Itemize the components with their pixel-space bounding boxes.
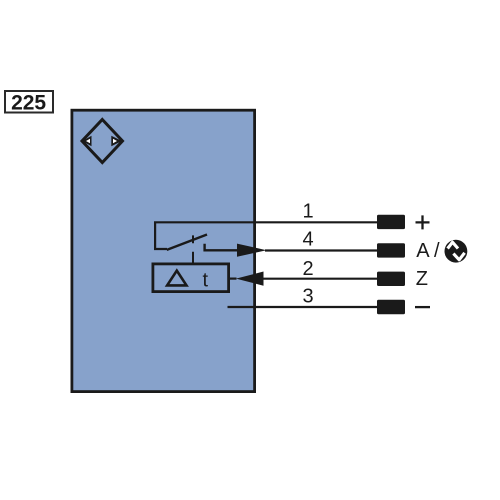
svg-text:A /: A /	[416, 240, 440, 262]
svg-text:Z: Z	[416, 268, 428, 290]
svg-text:3: 3	[302, 285, 313, 307]
svg-text:2: 2	[302, 258, 313, 280]
svg-text:1: 1	[302, 201, 313, 223]
svg-text:t: t	[203, 270, 209, 292]
svg-text:4: 4	[302, 229, 313, 251]
svg-text:225: 225	[11, 91, 46, 114]
